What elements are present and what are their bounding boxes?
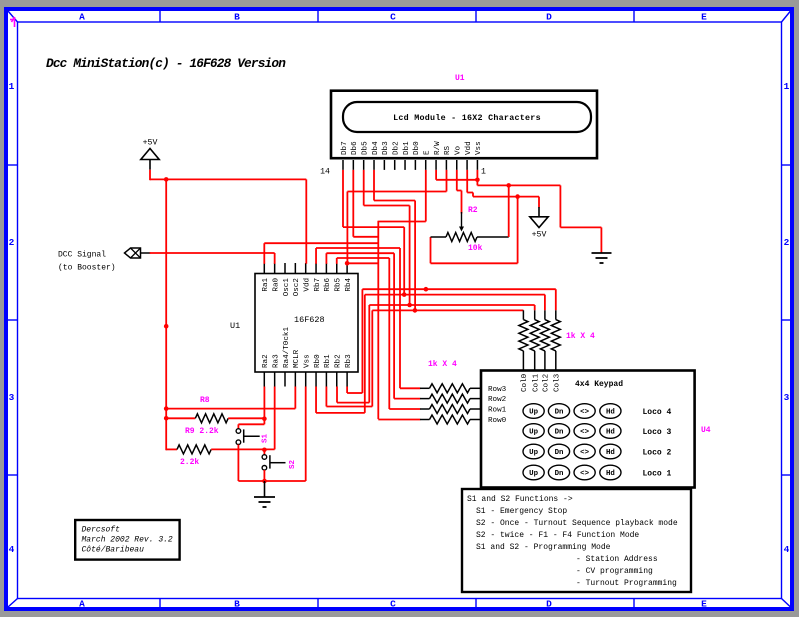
wire column line col2 xyxy=(365,294,545,296)
svg-text:Rb6: Rb6 xyxy=(324,277,332,291)
wire E jog vertical xyxy=(377,221,379,419)
junction rail R9 xyxy=(164,416,169,421)
PIC 16F628 box xyxy=(255,274,358,373)
wire Vss ground run xyxy=(476,170,478,186)
svg-text:R9 2.2k: R9 2.2k xyxy=(185,427,219,436)
svg-text:Rb4: Rb4 xyxy=(345,277,353,291)
junction ground run R2 xyxy=(506,183,511,188)
svg-text:- Turnout Programming: - Turnout Programming xyxy=(576,579,677,588)
svg-text:E: E xyxy=(424,150,432,155)
svg-text:A: A xyxy=(79,599,85,610)
svg-text:Vo: Vo xyxy=(455,145,463,155)
svg-text:March 2002 Rev. 3.2: March 2002 Rev. 3.2 xyxy=(82,536,173,545)
svg-text:2: 2 xyxy=(9,237,15,248)
svg-text:Loco 3: Loco 3 xyxy=(643,428,672,437)
svg-text:3: 3 xyxy=(784,392,790,403)
svg-text:Col1: Col1 xyxy=(533,373,541,392)
svg-text:Db1: Db1 xyxy=(403,141,411,155)
svg-text:Vdd: Vdd xyxy=(465,141,473,155)
svg-text:S2 - Once - Turnout Sequence p: S2 - Once - Turnout Sequence playback mo… xyxy=(476,519,678,528)
wire R/W to ground rail xyxy=(435,170,437,180)
border zone tick marks and corner diagonals xyxy=(159,9,161,22)
svg-text:Db3: Db3 xyxy=(382,141,390,155)
junction rail R8 xyxy=(164,406,169,411)
svg-text:2.2k: 2.2k xyxy=(180,458,199,467)
LCD pin stubs and rotated pin labels Db7..Vss xyxy=(342,160,344,170)
resistor network 1k X 4 rows xyxy=(420,387,430,389)
svg-text:1: 1 xyxy=(9,81,15,92)
svg-text:Rb1: Rb1 xyxy=(324,354,332,368)
svg-text:E: E xyxy=(701,12,707,23)
junction col3 Db4 xyxy=(424,287,429,292)
DCC output connector xyxy=(125,248,141,258)
ground symbol right xyxy=(592,252,612,254)
wire Rb3 braid xyxy=(346,387,348,394)
svg-text:+5V: +5V xyxy=(532,231,547,240)
svg-text:D: D xyxy=(546,599,552,610)
LCD module box xyxy=(331,91,597,159)
wire Rb2 braid xyxy=(336,387,338,403)
svg-text:Loco 4: Loco 4 xyxy=(643,408,672,417)
svg-text:Col0: Col0 xyxy=(521,373,529,392)
Dercsoft title box xyxy=(75,520,179,560)
ground line bottom xyxy=(238,480,305,482)
junction Ra2 R9 S1 xyxy=(262,416,267,421)
svg-text:Up: Up xyxy=(529,429,538,437)
svg-text:1k X 4: 1k X 4 xyxy=(428,360,457,369)
svg-text:Rb3: Rb3 xyxy=(345,354,353,368)
svg-text:<>: <> xyxy=(580,429,589,437)
resistor R2 10k potentiometer xyxy=(431,236,447,238)
svg-text:DCC Signal: DCC Signal xyxy=(58,251,106,260)
wire column line col3 xyxy=(362,288,555,290)
svg-text:S2 - twice - F1 - F4 Function: S2 - twice - F1 - F4 Function Mode xyxy=(476,531,639,540)
svg-text:Ra1: Ra1 xyxy=(262,277,270,291)
wire MCLR line R8 xyxy=(294,387,296,409)
junction R/W Vss xyxy=(475,178,480,183)
svg-text:Côté/Baribeau: Côté/Baribeau xyxy=(82,546,145,555)
switch S2 xyxy=(262,455,267,460)
wire Ra3 down xyxy=(274,387,276,450)
wire E to jog xyxy=(425,170,427,222)
svg-text:U1: U1 xyxy=(230,321,240,331)
switch S1 xyxy=(236,429,241,434)
svg-text:Db5: Db5 xyxy=(361,141,369,155)
svg-text:1k X 4: 1k X 4 xyxy=(566,332,595,341)
wire Ra2 to R9 xyxy=(263,387,265,419)
svg-text:B: B xyxy=(234,599,240,610)
svg-text:2: 2 xyxy=(784,237,790,248)
svg-text:A: A xyxy=(79,12,85,23)
wire S2 from node xyxy=(263,450,265,455)
wire Rb6 to row2 xyxy=(325,253,327,264)
svg-text:Hd: Hd xyxy=(606,409,615,417)
svg-text:Hd: Hd xyxy=(606,470,615,478)
svg-text:S1 - Emergency Stop: S1 - Emergency Stop xyxy=(476,507,567,516)
svg-text:<>: <> xyxy=(580,409,589,417)
wire +5V down to PIC Vdd xyxy=(305,179,307,263)
svg-text:Ra3: Ra3 xyxy=(272,354,280,368)
wire DCC signal line xyxy=(150,252,275,254)
wire +5V to rail xyxy=(149,170,151,181)
wire R2 right to ground run xyxy=(508,185,510,237)
junction col2 Db7 xyxy=(402,292,407,297)
svg-text:U4: U4 xyxy=(701,426,711,435)
svg-text:(to Booster): (to Booster) xyxy=(58,264,116,273)
svg-text:Db0: Db0 xyxy=(413,141,421,155)
svg-text:Row0: Row0 xyxy=(488,417,507,425)
svg-text:Rb5: Rb5 xyxy=(335,277,343,291)
svg-text:16F628: 16F628 xyxy=(294,315,325,325)
wire S1 bottom to ground line xyxy=(237,445,239,482)
svg-text:- CV programming: - CV programming xyxy=(576,567,653,576)
wire Db7 xyxy=(342,170,344,227)
svg-text:Up: Up xyxy=(529,470,538,478)
svg-text:S1: S1 xyxy=(262,433,270,443)
junction Vdd node xyxy=(515,194,520,199)
svg-text:B: B xyxy=(234,12,240,23)
wire Vss PIC to ground line xyxy=(305,387,307,482)
wire Db5 xyxy=(363,170,365,206)
svg-text:S2: S2 xyxy=(289,459,297,469)
wire R2 left to Vdd node xyxy=(517,197,519,264)
wire E to Ra1 xyxy=(264,242,378,244)
svg-text:D: D xyxy=(546,12,552,23)
svg-text:Rb2: Rb2 xyxy=(335,354,343,368)
wire Rb4 to row4 xyxy=(347,262,378,264)
svg-text:Vss: Vss xyxy=(475,141,483,155)
resistor network 1k X 4 columns xyxy=(522,310,524,319)
svg-text:Dn: Dn xyxy=(555,409,564,417)
svg-text:Vss: Vss xyxy=(304,354,312,368)
resistor R9 2.2k xyxy=(166,417,195,419)
svg-text:<>: <> xyxy=(580,470,589,478)
svg-text:Hd: Hd xyxy=(606,429,615,437)
svg-text:1: 1 xyxy=(481,168,486,177)
svg-text:Ra0: Ra0 xyxy=(272,277,280,291)
wire column line col0 xyxy=(372,309,523,311)
junction +5V rail xyxy=(164,177,169,182)
svg-text:Row1: Row1 xyxy=(488,407,507,415)
svg-text:Ra2: Ra2 xyxy=(262,354,270,368)
svg-text:S1 and S2 Functions ->: S1 and S2 Functions -> xyxy=(467,495,573,504)
svg-text:14: 14 xyxy=(320,168,330,177)
ground symbol bottom xyxy=(264,481,266,497)
svg-text:U1: U1 xyxy=(455,74,465,83)
svg-text:Dercsoft: Dercsoft xyxy=(82,526,121,535)
wire Db4 xyxy=(373,170,375,201)
svg-text:Dn: Dn xyxy=(555,449,564,457)
svg-text:3: 3 xyxy=(9,392,15,403)
wire Db6 xyxy=(352,170,354,237)
svg-text:Osc1: Osc1 xyxy=(283,278,291,297)
svg-text:Db6: Db6 xyxy=(351,141,359,155)
wire column line col1 xyxy=(369,304,534,306)
wire S1 from R9 node xyxy=(263,419,265,425)
svg-text:4: 4 xyxy=(784,544,790,555)
wire Rb7 to row1 xyxy=(315,248,317,264)
svg-text:Up: Up xyxy=(529,449,538,457)
+5V power symbol right xyxy=(538,207,540,217)
PIC pin stubs and rotated labels top Ra1..Rb4 bottom Ra2..Rb3 xyxy=(263,263,265,274)
svg-text:+5V: +5V xyxy=(143,139,158,148)
svg-text:Ra4/T0ck1: Ra4/T0ck1 xyxy=(283,327,291,368)
svg-text:R2: R2 xyxy=(468,206,478,215)
junction col0 Db6 xyxy=(413,308,418,313)
svg-text:4: 4 xyxy=(9,544,15,555)
svg-text:<>: <> xyxy=(580,449,589,457)
junction S2 top node xyxy=(262,448,267,453)
svg-text:R/W: R/W xyxy=(434,141,442,155)
keypad buttons 4x4 Up Dn <> Hd xyxy=(523,404,544,419)
svg-text:Col3: Col3 xyxy=(554,373,562,392)
wire RS xyxy=(446,170,448,192)
svg-text:Lcd Module - 16X2 Characters: Lcd Module - 16X2 Characters xyxy=(393,113,541,123)
svg-text:Up: Up xyxy=(529,409,538,417)
svg-text:Row2: Row2 xyxy=(488,396,507,404)
junction ground line xyxy=(262,479,267,484)
wire S2 bottom to ground line xyxy=(263,470,265,481)
svg-text:E: E xyxy=(701,599,707,610)
svg-text:Dcc MiniStation(c) - 16F628 Ve: Dcc MiniStation(c) - 16F628 Version xyxy=(46,56,286,71)
wire Vdd to +5V xyxy=(466,170,468,193)
svg-text:RS: RS xyxy=(444,145,452,155)
svg-text:Db4: Db4 xyxy=(372,141,380,155)
svg-text:Dn: Dn xyxy=(555,470,564,478)
svg-text:C: C xyxy=(390,12,396,23)
LCD display rounded window xyxy=(343,102,591,132)
wire DCC to Ra0 xyxy=(274,253,276,264)
svg-text:R8: R8 xyxy=(200,396,210,405)
svg-text:1: 1 xyxy=(784,81,790,92)
left vertical rail xyxy=(165,179,167,451)
svg-text:Col2: Col2 xyxy=(543,373,551,392)
svg-text:- Station Address: - Station Address xyxy=(576,555,658,564)
wire Rb1 braid xyxy=(325,387,327,407)
junction lone on rail xyxy=(164,324,169,329)
svg-text:Vdd: Vdd xyxy=(304,278,312,292)
corner magenta arrow xyxy=(10,17,15,27)
svg-text:Rb7: Rb7 xyxy=(314,278,322,292)
svg-text:Hd: Hd xyxy=(606,449,615,457)
svg-text:Row3: Row3 xyxy=(488,386,507,394)
svg-text:MCLR: MCLR xyxy=(293,349,301,368)
svg-text:Osc2: Osc2 xyxy=(293,278,301,297)
wire Rb0 braid xyxy=(315,387,317,413)
svg-text:Loco 2: Loco 2 xyxy=(643,448,672,457)
svg-text:10k: 10k xyxy=(468,244,483,253)
keypad box xyxy=(481,371,695,488)
resistor 2.2k lower xyxy=(166,448,177,450)
wire Vo to R2 wiper xyxy=(456,170,458,191)
svg-text:Db2: Db2 xyxy=(393,141,401,155)
svg-text:Dn: Dn xyxy=(555,429,564,437)
junction col1 Db5 xyxy=(407,303,412,308)
R2 wiper arrow xyxy=(461,212,463,227)
svg-text:Loco 1: Loco 1 xyxy=(643,469,672,478)
junction Rb4 stub xyxy=(345,261,350,266)
svg-text:S1 and S2 - Programming Mode: S1 and S2 - Programming Mode xyxy=(476,543,611,552)
svg-text:Rb0: Rb0 xyxy=(314,354,322,368)
wire Rb5 to row3 xyxy=(336,258,338,264)
svg-text:Db7: Db7 xyxy=(341,141,349,155)
S functions box xyxy=(462,489,691,592)
svg-text:4x4 Keypad: 4x4 Keypad xyxy=(575,380,623,389)
svg-text:C: C xyxy=(390,599,396,610)
